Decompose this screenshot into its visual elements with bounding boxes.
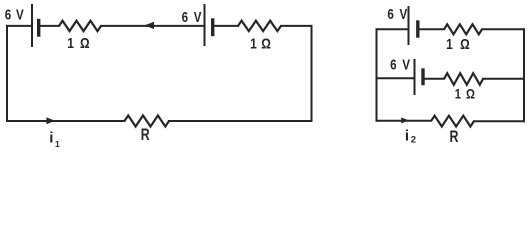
resistor R2 1 ohm — [238, 21, 281, 31]
svg-text:1: 1 — [455, 86, 461, 101]
wire: right circuit top branch, left stub — [377, 28, 408, 30]
wire: right circuit left side — [376, 29, 378, 120]
resistor R1 1 ohm — [59, 21, 101, 31]
value label 6 V (B4) — [390, 56, 410, 73]
svg-text:V: V — [400, 6, 408, 23]
svg-text:6: 6 — [390, 56, 396, 73]
wire: R3 to top-right corner — [482, 28, 524, 30]
svg-text:1: 1 — [55, 139, 60, 149]
value label 1 ohm (R3) — [446, 36, 470, 53]
current arrow i1 (points right) — [46, 117, 55, 124]
value label 6 V (B3) — [387, 6, 407, 23]
svg-text:2: 2 — [411, 135, 416, 146]
svg-text:1: 1 — [446, 36, 453, 53]
current arrow i2 (points right) — [401, 117, 409, 123]
wire: left loop top, left stub — [7, 25, 31, 27]
current direction arrow (points left) on top wire — [145, 22, 155, 29]
svg-text:6: 6 — [387, 6, 393, 23]
battery B4 6 V (right circuit, middle branch) — [415, 60, 424, 94]
value label 1 ohm (R4) — [455, 86, 475, 101]
svg-text:R: R — [141, 127, 150, 145]
svg-text:6: 6 — [5, 6, 11, 23]
svg-text:Ω: Ω — [460, 36, 470, 53]
svg-text:V: V — [402, 56, 410, 73]
wire: B4 to R4 — [425, 78, 444, 80]
value label 6 V (B1) — [5, 6, 24, 23]
svg-text:i: i — [405, 128, 409, 145]
resistor R3 1 ohm (top branch) — [444, 24, 482, 34]
svg-text:6: 6 — [182, 9, 188, 26]
wire: left loop bottom, right of R — [169, 120, 312, 122]
svg-text:Ω: Ω — [80, 35, 90, 52]
label i1 (loop current) — [49, 129, 60, 149]
svg-text:1: 1 — [67, 35, 74, 52]
wire: right circuit bottom branch, left of R — [377, 120, 432, 122]
battery B2 6 V (left loop, right) — [205, 5, 213, 45]
resistor R (left loop bottom) — [125, 116, 170, 127]
wire: right circuit right side — [523, 29, 525, 121]
value label 1 ohm (R2) — [250, 35, 271, 52]
wire: left loop left side — [6, 26, 8, 121]
battery B1 6 V (left loop, left) — [32, 5, 39, 46]
wire: B1 to R1 — [40, 25, 59, 27]
svg-text:V: V — [194, 9, 202, 26]
wire: R4 to right side — [483, 78, 524, 80]
svg-text:R: R — [450, 129, 459, 147]
wire: R2 to top-right corner — [281, 25, 312, 27]
wire: left loop right side — [311, 26, 313, 121]
resistor R4 1 ohm (middle branch) — [444, 73, 483, 85]
battery B3 6 V (right circuit, top branch) — [409, 7, 418, 44]
label R (right circuit) — [450, 129, 459, 147]
label i2 (branch current) — [405, 128, 416, 146]
wire: right circuit bottom branch, right of R — [474, 120, 524, 122]
wire: left loop bottom, left of R — [7, 120, 125, 122]
value label 6 V (B2) — [182, 9, 202, 26]
svg-text:V: V — [16, 6, 24, 23]
wire: R1 to B2 — [101, 25, 204, 27]
svg-text:1: 1 — [250, 35, 257, 52]
svg-text:Ω: Ω — [466, 86, 475, 101]
svg-text:i: i — [49, 129, 53, 146]
value label 1 ohm (R1) — [67, 35, 90, 52]
label R (left loop) — [141, 127, 150, 145]
svg-text:Ω: Ω — [261, 35, 271, 52]
wire: B2 to R2 — [214, 25, 238, 27]
wire: B3 to R3 — [420, 28, 445, 30]
resistor R5 R (right circuit bottom) — [431, 116, 474, 127]
wire: middle branch, left stub — [377, 77, 414, 79]
